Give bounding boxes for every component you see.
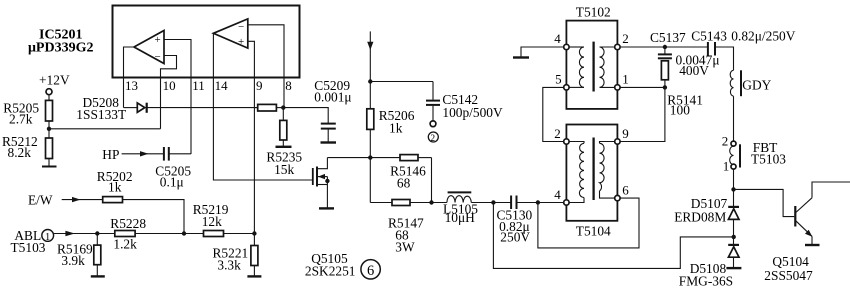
svg-text:−: −	[155, 51, 161, 63]
ground	[42, 166, 57, 168]
svg-text:2SK2251: 2SK2251	[305, 264, 356, 279]
resistor (between pin 9 and pin 8 node)	[254, 107, 257, 109]
svg-text:9: 9	[622, 126, 629, 141]
ground	[276, 146, 292, 148]
transformer T5104	[566, 125, 617, 221]
wire T5102 pin4 to ground	[521, 47, 564, 58]
capacitor C5130	[510, 196, 512, 210]
node L5105/C5130 junction	[491, 200, 495, 204]
resistor R5147	[392, 200, 410, 206]
node R5169 junction	[95, 231, 99, 235]
wire U1a output to pin 13	[124, 47, 135, 108]
svg-text:HP: HP	[102, 147, 119, 162]
svg-text:100p/500V: 100p/500V	[442, 105, 503, 120]
svg-text:+: +	[155, 34, 161, 46]
inductor L5105	[447, 196, 471, 203]
T5104 right winding	[600, 142, 616, 144]
svg-text:2: 2	[554, 126, 561, 141]
svg-text:+: +	[238, 36, 244, 48]
svg-text:FMG-36S: FMG-36S	[679, 274, 733, 289]
node snubber top	[663, 45, 667, 49]
svg-text:100: 100	[670, 103, 690, 118]
svg-text:8.2k: 8.2k	[8, 145, 32, 160]
svg-text:T5103: T5103	[11, 240, 46, 255]
svg-text:1: 1	[723, 159, 730, 174]
svg-text:13: 13	[125, 78, 138, 93]
resistor R5228	[115, 231, 135, 237]
svg-text:10: 10	[163, 78, 176, 93]
wire GDY to FBT	[733, 96, 735, 143]
wire	[48, 121, 50, 138]
svg-text:9: 9	[256, 78, 263, 93]
svg-text:400V: 400V	[679, 63, 709, 78]
svg-text:2: 2	[430, 134, 435, 144]
svg-text:E/W: E/W	[28, 193, 53, 208]
svg-text:4: 4	[554, 187, 561, 202]
wire right side down	[431, 158, 433, 203]
node R5206 top junction	[368, 79, 372, 83]
resistor R5219	[204, 231, 224, 237]
capacitor C5142	[432, 82, 434, 100]
svg-text:1k: 1k	[108, 180, 122, 195]
wire U1b output to pin 14 and to Q5105 gate	[213, 33, 312, 180]
svg-text:+12V: +12V	[39, 73, 70, 88]
resistor R5146	[400, 155, 418, 161]
svg-text:8: 8	[285, 78, 292, 93]
svg-text:−: −	[238, 21, 244, 33]
wire T5102 pin2 to C5143	[620, 46, 708, 48]
inductor GDY	[730, 70, 733, 96]
svg-text:1SS133T: 1SS133T	[76, 107, 126, 122]
ground	[805, 244, 820, 246]
svg-text:2: 2	[622, 31, 629, 46]
wire	[135, 233, 203, 235]
svg-text:68: 68	[397, 176, 411, 191]
svg-text:6: 6	[367, 263, 374, 279]
node E/W join	[182, 231, 186, 235]
wire junction to pin10 column	[49, 128, 161, 130]
terminal circle	[430, 121, 436, 127]
svg-text:1.2k: 1.2k	[113, 237, 137, 252]
wire	[48, 159, 50, 167]
op-amp U1b	[213, 19, 247, 48]
ground	[726, 267, 741, 269]
ground	[321, 141, 337, 143]
wire U1a + input to pin 11	[164, 40, 191, 155]
svg-text:10μH: 10μH	[445, 210, 476, 225]
svg-text:5: 5	[555, 72, 562, 87]
svg-text:3.9k: 3.9k	[61, 253, 85, 268]
svg-text:T5104: T5104	[576, 224, 611, 239]
svg-text:ERD08M: ERD08M	[674, 210, 726, 225]
T5102 core	[592, 42, 594, 92]
resistor R5169	[96, 234, 98, 246]
node C5130/T5104-4 junction	[536, 200, 540, 204]
svg-text:C5137: C5137	[650, 30, 686, 45]
FBT winding	[730, 146, 734, 164]
wire T5102 pin5 to T5104 pin2	[543, 87, 564, 141]
resistor R5205	[46, 100, 53, 121]
resistor R5141	[661, 61, 668, 80]
wire to C5142	[370, 81, 433, 83]
transistor Q5104 2SS5047	[734, 189, 795, 216]
node D5107/D5108	[732, 235, 736, 239]
svg-text:2: 2	[722, 134, 729, 149]
wire FBT pin1 down	[733, 169, 735, 206]
op-amp U1a	[134, 31, 164, 64]
node R5221 junction	[252, 231, 256, 235]
svg-text:11: 11	[192, 78, 205, 93]
ground	[91, 275, 105, 277]
wire R5202 to ABL line	[123, 200, 185, 234]
wire U1b + input pin 9 column	[248, 41, 255, 233]
ground	[247, 275, 261, 277]
transistor Q5105 2SK2251 MOSFET	[312, 168, 314, 185]
svg-text:14: 14	[215, 78, 229, 93]
wire supply with down arrow	[369, 31, 371, 108]
capacitor C5205	[163, 147, 165, 161]
svg-text:T5103: T5103	[751, 152, 786, 167]
resistor R5202	[103, 197, 123, 203]
resistor R5206	[367, 109, 374, 130]
svg-text:1k: 1k	[389, 120, 403, 135]
resistor R5235	[282, 108, 284, 121]
wire center-tap link pin4 node to pin6	[538, 198, 639, 248]
svg-text:0.001μ: 0.001μ	[314, 90, 351, 105]
node FBT/base/D5107	[731, 187, 735, 191]
T5104 core	[592, 138, 594, 201]
svg-text:R5228: R5228	[110, 216, 146, 231]
op-amp U1 IC box IC5201	[113, 6, 300, 78]
svg-text:2.7k: 2.7k	[9, 112, 33, 127]
node circled 6	[361, 260, 380, 279]
svg-text:250V: 250V	[500, 230, 530, 245]
svg-text:2SS5047: 2SS5047	[764, 268, 813, 283]
wire C5143 to GDY	[715, 47, 734, 70]
wire U1a - input to pin 10	[161, 56, 177, 129]
wire U1b - input to pin 8	[248, 25, 284, 108]
wire left side down	[369, 158, 371, 203]
wire modulator link L5105/C5130 junction to D5107/D5108 node	[493, 203, 734, 269]
node drain junction	[368, 155, 372, 159]
svg-text:3.3k: 3.3k	[217, 258, 241, 273]
svg-text:4: 4	[554, 31, 561, 46]
svg-text:6: 6	[622, 183, 629, 198]
wire	[224, 233, 255, 235]
wire	[48, 95, 50, 101]
svg-text:0.1μ: 0.1μ	[160, 174, 184, 189]
svg-text:C5143: C5143	[691, 29, 727, 44]
wire D5208 cathode to pin9 node	[147, 107, 258, 109]
resistor R5221	[253, 234, 255, 246]
svg-text:Q5104: Q5104	[772, 254, 809, 269]
T5102 primary winding	[568, 46, 584, 48]
wire T5102 pin1 to T5104 pin9	[620, 87, 665, 141]
svg-text:μPD339G2: μPD339G2	[28, 41, 94, 56]
resistor R5212	[46, 138, 53, 159]
wire ABL line	[54, 233, 115, 235]
svg-text:15k: 15k	[274, 162, 294, 177]
wire to C5209	[283, 108, 328, 123]
svg-text:T5102: T5102	[576, 5, 611, 20]
node circled 2	[428, 132, 438, 142]
ground	[513, 56, 529, 58]
node pin8/R5235/C5209	[281, 105, 285, 109]
svg-text:12k: 12k	[202, 214, 222, 229]
node snubber bottom	[663, 85, 667, 89]
T5104 left winding	[568, 142, 584, 144]
svg-text:1: 1	[622, 72, 629, 87]
wire C5205 to pin 11 column	[169, 153, 191, 155]
svg-text:GDY: GDY	[742, 78, 771, 93]
node junction R5146/R5147	[429, 200, 433, 204]
node junction R5205/R5212	[47, 127, 51, 131]
ground	[319, 207, 334, 209]
svg-text:1: 1	[45, 232, 50, 243]
T5102 secondary winding	[600, 46, 616, 48]
svg-text:0.82μ/250V: 0.82μ/250V	[731, 29, 795, 44]
svg-text:3W: 3W	[395, 240, 415, 255]
wire drain line	[327, 157, 400, 159]
